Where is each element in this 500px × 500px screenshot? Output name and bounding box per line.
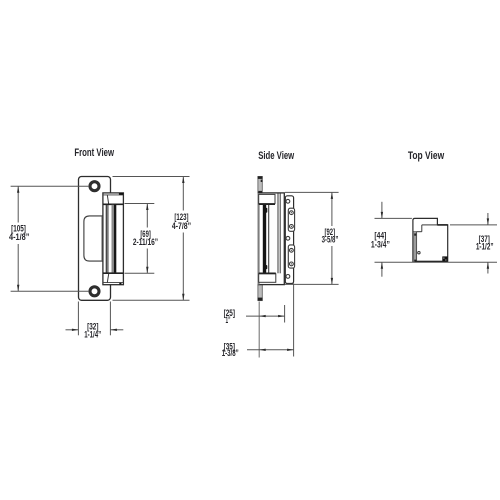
dim 92 line — [331, 192, 333, 284]
side inner line D — [279, 194, 281, 274]
keeper strip line B — [107, 205, 109, 273]
side top cap thick bottom — [259, 203, 275, 205]
dim 37 upper tail — [487, 213, 489, 225]
dim 105 extension top — [11, 185, 89, 187]
svg-text:1-1/4”: 1-1/4” — [84, 329, 101, 339]
faceplate top tab — [258, 177, 262, 193]
dim 35 line — [247, 349, 294, 351]
dim 44 label — [371, 231, 390, 250]
svg-text:Top View: Top View — [408, 150, 445, 162]
side bottom cap thick top — [259, 272, 276, 274]
keeper gray band — [112, 205, 114, 273]
dim 69 extension bottom — [125, 272, 155, 274]
top view outline — [413, 218, 448, 262]
dim 32 extension left — [77, 302, 79, 336]
top view step lines — [413, 225, 438, 232]
dim 25 label — [224, 308, 235, 325]
bottom extension line across — [375, 261, 498, 263]
svg-text:1-3/8”: 1-3/8” — [222, 348, 239, 358]
top view small circle — [418, 252, 420, 254]
keeper housing box — [103, 193, 124, 285]
top view dark component — [442, 256, 447, 261]
dim 123 arrow up — [182, 177, 184, 184]
keeper top cap bottom thick line — [103, 203, 123, 205]
faceplate top cap dark — [258, 176, 263, 179]
dim 69 arrow down — [146, 267, 148, 274]
side keeper black band — [263, 205, 266, 274]
dim 25 arrow left — [259, 315, 266, 317]
dim 105 arrow up — [17, 186, 19, 193]
svg-text:1-1/2”: 1-1/2” — [476, 242, 494, 252]
side top cap — [259, 194, 275, 203]
dim 37 lower tail — [487, 262, 489, 273]
faceplate — [79, 177, 111, 301]
dim 37 arrow down — [487, 218, 489, 225]
side keeper line A — [268, 205, 270, 274]
top view faceplate strip — [414, 232, 417, 262]
side inner line C — [277, 194, 279, 274]
side bottom cap — [259, 274, 276, 283]
top view thick bottom edge — [415, 261, 448, 263]
dim 123 line — [182, 177, 184, 301]
latch cavity — [84, 216, 103, 261]
rear plate screw mid — [286, 236, 290, 240]
keeper inner top line — [103, 194, 123, 196]
dim 69 label — [133, 229, 158, 247]
dim 32 arrow right — [72, 329, 79, 331]
dim 32 line right — [110, 329, 123, 331]
dim 69 arrow up — [146, 204, 148, 211]
svg-text:Front View: Front View — [74, 147, 114, 159]
dim 35 right extension — [293, 284, 295, 357]
svg-text:1-3/4”: 1-3/4” — [371, 240, 390, 250]
dim 123 arrow down — [182, 294, 184, 301]
keeper bottom black mark — [119, 283, 121, 285]
dim 92 label — [322, 227, 339, 245]
dim 37 arrow up — [487, 262, 489, 269]
boss lower — [288, 245, 294, 268]
body box — [258, 193, 284, 285]
junction dark mark — [258, 191, 262, 193]
dim 37 extension top — [450, 224, 497, 226]
boss lower screws — [290, 248, 294, 265]
keeper bottom cap left slant — [107, 274, 108, 283]
band knob top — [266, 208, 268, 213]
dim 32 label — [84, 321, 101, 339]
dim 123 extension top — [113, 176, 190, 178]
keeper strip line A — [105, 205, 107, 273]
keeper black band — [114, 205, 116, 273]
rear plate screw bottom — [286, 275, 290, 279]
keeper bottom thick line — [103, 272, 123, 274]
svg-text:4-1/8”: 4-1/8” — [9, 232, 29, 242]
dim 69 line — [146, 204, 148, 274]
boss upper screws — [290, 211, 294, 229]
dim 35 arrow right — [287, 349, 294, 351]
dim 92 arrow down — [331, 278, 333, 285]
top view thick top right edge — [437, 224, 447, 226]
dim 105 arrow down — [17, 285, 19, 292]
boss upper — [288, 208, 294, 231]
dim 44 extension top — [375, 217, 412, 219]
rear mounting plate — [285, 196, 293, 284]
bottom screw hole — [90, 287, 99, 296]
dim 69 extension top — [125, 203, 155, 205]
keeper top cap left slant — [107, 195, 108, 204]
faceplate bottom cap dark — [258, 298, 263, 301]
top view strip bottom dot — [414, 260, 416, 262]
dim 44 arrow down — [381, 212, 383, 219]
dim 44 lower tail — [381, 262, 383, 276]
dim 35 label — [222, 341, 239, 358]
dim 105 line — [17, 186, 19, 291]
rear plate screw top — [286, 199, 290, 203]
dim 32 arrow left — [110, 329, 117, 331]
dim 92 extension top — [285, 191, 339, 193]
svg-text:Side View: Side View — [258, 150, 294, 162]
dim 105 extension bottom — [11, 290, 89, 292]
dim 123 extension bottom — [113, 299, 190, 301]
faceplate top dot — [261, 180, 263, 182]
svg-text:2-11/16”: 2-11/16” — [133, 237, 158, 247]
dim 123 label — [172, 212, 191, 231]
dim 25 arrow right — [278, 315, 285, 317]
top view strip top dot — [414, 234, 416, 236]
dim 37 label — [476, 234, 494, 252]
svg-text:1”: 1” — [226, 315, 231, 325]
dim 44 upper tail — [381, 202, 383, 219]
top view faceplate strip right edge — [416, 232, 418, 262]
svg-text:3-5/8”: 3-5/8” — [322, 234, 339, 244]
faceplate edge line in body — [258, 193, 260, 285]
top screw hole — [90, 182, 99, 191]
faceplate bottom tab — [258, 285, 262, 301]
dim 25 right extension — [284, 305, 286, 323]
side left extension line — [258, 302, 260, 358]
dim 35 arrow left — [259, 349, 266, 351]
dim 92 extension bottom — [285, 283, 339, 285]
band knob bottom — [266, 265, 268, 269]
dim 105 label — [9, 224, 29, 243]
dim 92 arrow up — [331, 192, 333, 199]
keeper inner bottom line — [103, 282, 123, 284]
dim 32 line left — [66, 329, 79, 331]
keeper top black mark — [119, 193, 123, 195]
dim 32 extension right — [109, 302, 111, 336]
dim 44 arrow up — [381, 262, 383, 269]
dim 25 line — [246, 315, 285, 317]
svg-text:4-7/8”: 4-7/8” — [172, 221, 191, 231]
cavity right edge shading — [101, 216, 103, 261]
